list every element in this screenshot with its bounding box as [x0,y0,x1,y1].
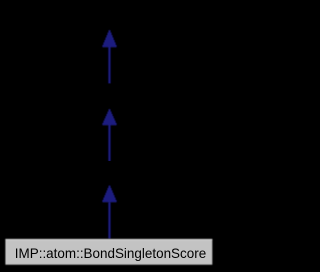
svg-text:IMP::SingletonScore: IMP::SingletonScore [46,167,174,183]
top edge highlight line of grey box [5,239,212,240]
inheritance arrow 2 (midnightblue, pointing up) [102,109,116,161]
svg-text:IMP::atom::BondSingletonScore: IMP::atom::BondSingletonScore [15,245,207,261]
svg-text:IMP::base::Object: IMP::base::Object [54,9,165,25]
class box IMP::base::Object (top level, black-on-black invisible) [50,4,169,30]
class box IMP::SingletonScore (third level, black-on-black invisible) [42,162,178,187]
inheritance arrow 1 (midnightblue, pointing up to top box) [102,30,116,84]
current class box IMP::atom::BondSingletonScore (grey filled node) [5,239,212,265]
svg-text:IMP::ParticleInputs: IMP::ParticleInputs [51,89,169,105]
class box IMP::ParticleInputs (second level, black-on-black invisible) [46,84,174,110]
left edge highlight line of grey box [6,239,7,264]
inheritance arrow 3 (midnightblue, pointing up) [102,186,116,239]
